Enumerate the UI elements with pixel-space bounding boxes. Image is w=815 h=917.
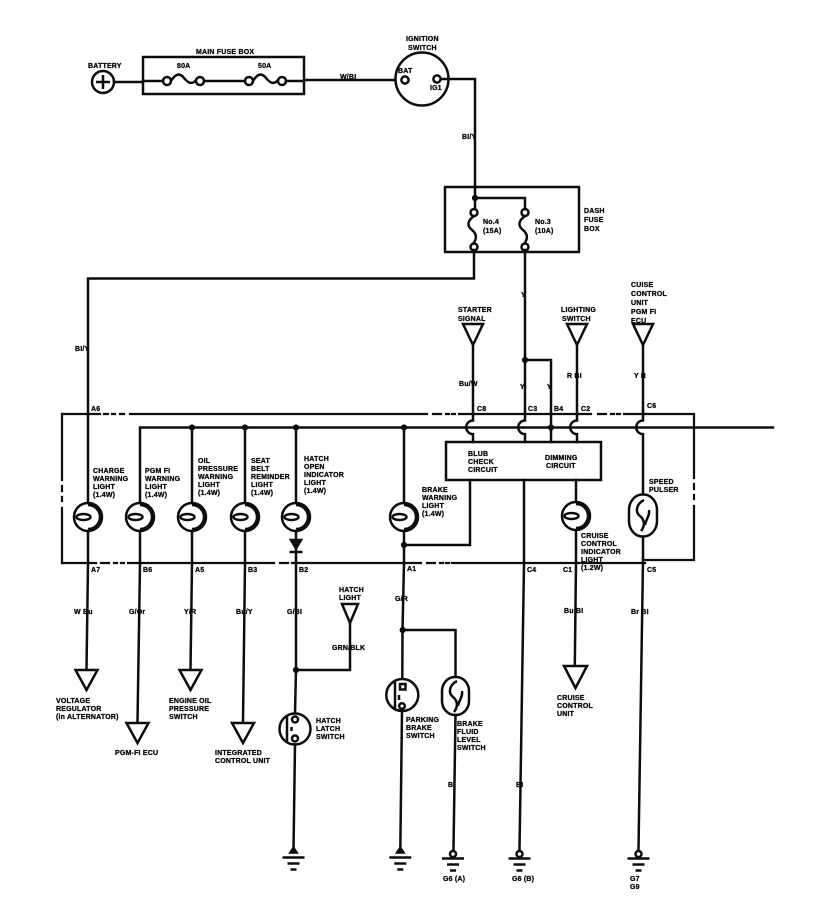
svg-text:CRUISE: CRUISE — [557, 695, 585, 702]
bus wire inside cluster — [140, 428, 773, 504]
svg-text:A1: A1 — [407, 566, 416, 573]
svg-text:80A: 80A — [177, 63, 190, 70]
junction node B4 — [548, 424, 554, 430]
svg-text:(1.4W): (1.4W) — [304, 488, 326, 495]
svg-text:CONTROL UNIT: CONTROL UNIT — [215, 758, 271, 765]
svg-text:LIGHT: LIGHT — [198, 482, 221, 489]
svg-text:DASH: DASH — [584, 208, 605, 215]
svg-text:A5: A5 — [195, 567, 204, 574]
svg-text:Y R: Y R — [634, 373, 646, 380]
wire battery to main fuse box — [114, 81, 143, 84]
svg-text:CIRCUIT: CIRCUIT — [546, 463, 576, 470]
svg-text:A7: A7 — [91, 567, 100, 574]
svg-text:BI: BI — [516, 782, 523, 789]
junction node brake — [401, 424, 407, 430]
svg-text:REGULATOR: REGULATOR — [56, 706, 102, 713]
wire C1 to cruise control unit, label Bu BI — [564, 563, 583, 665]
svg-text:C4: C4 — [527, 567, 536, 574]
svg-text:LIGHT: LIGHT — [251, 482, 274, 489]
svg-text:CUISE: CUISE — [631, 282, 654, 289]
PGM-FI ECU connector triangle — [115, 723, 158, 757]
wire B6 to PGM-FI ECU, label G/Or — [129, 563, 145, 722]
wire A7 to voltage regulator, label W Bu — [74, 563, 93, 669]
charge warning light lamp — [74, 414, 129, 563]
wire fuse No.4 to left branch, label BI/Y — [75, 250, 474, 414]
svg-text:UNIT: UNIT — [631, 300, 649, 307]
svg-text:LIGHT: LIGHT — [304, 480, 327, 487]
svg-text:CRUISE: CRUISE — [581, 533, 609, 540]
svg-text:LIGHT: LIGHT — [339, 595, 362, 602]
svg-text:FLUID: FLUID — [457, 729, 479, 736]
wire inside dash fuse box with junction — [472, 187, 525, 209]
svg-text:Y: Y — [547, 384, 552, 391]
fuse 50A — [245, 63, 286, 85]
svg-text:IG1: IG1 — [430, 85, 442, 92]
fuse No.3 (10A) — [519, 209, 553, 251]
svg-text:SWITCH: SWITCH — [457, 745, 486, 752]
svg-text:PGM-FI ECU: PGM-FI ECU — [115, 750, 158, 757]
integrated control unit connector triangle — [215, 723, 271, 765]
svg-text:IGNITION: IGNITION — [406, 36, 439, 43]
svg-text:R BI: R BI — [567, 373, 582, 380]
svg-text:MAIN FUSE BOX: MAIN FUSE BOX — [196, 49, 254, 56]
svg-text:VOLTAGE: VOLTAGE — [56, 698, 90, 705]
hatch light connector triangle — [293, 587, 365, 673]
svg-text:C2: C2 — [581, 406, 590, 413]
svg-text:BAT: BAT — [398, 68, 413, 75]
svg-text:B3: B3 — [248, 567, 257, 574]
wire through main fuse box — [143, 80, 304, 83]
instrument cluster boundary top (dash-dot) — [62, 413, 645, 415]
svg-text:INDICATOR: INDICATOR — [581, 549, 621, 556]
svg-text:REMINDER: REMINDER — [251, 474, 290, 481]
svg-text:C1: C1 — [563, 567, 572, 574]
svg-text:BI: BI — [448, 782, 455, 789]
wire IG1 to dash fuse box, label BI/Y — [441, 79, 477, 187]
instrument cluster boundary left edge — [61, 414, 63, 563]
wire B2 down, label G/BI — [287, 563, 302, 714]
svg-text:C6: C6 — [647, 403, 656, 410]
svg-text:BI/Y: BI/Y — [462, 134, 477, 141]
svg-text:WARNING: WARNING — [198, 474, 234, 481]
junction node oil pressure — [189, 424, 195, 430]
svg-text:W Bu: W Bu — [74, 609, 93, 616]
svg-text:Y: Y — [520, 384, 525, 391]
svg-text:SWITCH: SWITCH — [562, 316, 591, 323]
svg-text:LIGHT: LIGHT — [422, 503, 445, 510]
svg-text:(1.4W): (1.4W) — [251, 490, 273, 497]
svg-text:LIGHT: LIGHT — [145, 484, 168, 491]
svg-text:LATCH: LATCH — [316, 726, 340, 733]
wire C8 into bulb check circuit with hop over bus — [466, 414, 473, 442]
wire C4 to ground, label BI — [516, 563, 524, 849]
svg-text:G9: G9 — [630, 884, 640, 891]
svg-text:(1.4W): (1.4W) — [198, 490, 220, 497]
svg-text:HATCH: HATCH — [304, 456, 329, 463]
svg-text:G/BI: G/BI — [287, 609, 302, 616]
speed pulser — [629, 479, 679, 560]
svg-text:C5: C5 — [647, 567, 656, 574]
svg-text:Y: Y — [521, 292, 526, 299]
svg-text:B6: B6 — [143, 567, 152, 574]
ground G6 (B) — [509, 851, 535, 883]
dash fuse box — [445, 187, 605, 252]
svg-text:C8: C8 — [477, 406, 486, 413]
svg-text:BELT: BELT — [251, 466, 270, 473]
wire fuse No.3 down, label Y — [521, 250, 526, 360]
svg-text:Bu/Y: Bu/Y — [236, 609, 253, 616]
svg-text:GRN/BLK: GRN/BLK — [332, 645, 365, 652]
ground G6 (A) — [442, 851, 465, 883]
wire C6 to speed pulser with hop — [636, 410, 643, 496]
svg-text:CONTROL: CONTROL — [581, 541, 618, 548]
wire parking brake switch to ground — [400, 711, 402, 851]
cruise control unit connector triangle — [557, 666, 594, 718]
diode below hatch lamp — [290, 540, 303, 553]
svg-text:INDICATOR: INDICATOR — [304, 472, 344, 479]
wire B3 to integrated control unit, label Bu/Y — [236, 563, 253, 722]
junction node split to B4 — [520, 357, 552, 414]
svg-text:BRAKE: BRAKE — [422, 487, 448, 494]
svg-text:BATTERY: BATTERY — [88, 63, 122, 70]
svg-text:LIGHTING: LIGHTING — [561, 307, 596, 314]
svg-text:CONTROL: CONTROL — [557, 703, 594, 710]
svg-text:(1.4W): (1.4W) — [422, 511, 444, 518]
wire brake fluid switch to ground, label BI — [448, 715, 456, 849]
hatch latch switch — [280, 714, 345, 745]
svg-text:(10A): (10A) — [535, 228, 554, 235]
junction node seat belt — [242, 424, 248, 430]
svg-text:SWITCH: SWITCH — [408, 45, 437, 52]
svg-text:PRESSURE: PRESSURE — [169, 706, 209, 713]
svg-text:INTEGRATED: INTEGRATED — [215, 750, 262, 757]
svg-text:50A: 50A — [258, 63, 271, 70]
svg-text:SIGNAL: SIGNAL — [458, 316, 486, 323]
svg-text:BOX: BOX — [584, 226, 600, 233]
svg-text:BRAKE: BRAKE — [457, 721, 483, 728]
svg-text:WARNING: WARNING — [422, 495, 458, 502]
svg-text:OIL: OIL — [198, 458, 211, 465]
svg-text:A6: A6 — [91, 406, 100, 413]
wire B4 into box — [550, 414, 553, 442]
wire A5 to engine oil pressure switch, label Y/R — [184, 563, 196, 669]
svg-text:(15A): (15A) — [483, 228, 502, 235]
junction node hatch — [293, 424, 299, 430]
svg-text:DIMMING: DIMMING — [545, 455, 578, 462]
svg-text:HATCH: HATCH — [339, 587, 364, 594]
svg-text:PGM FI: PGM FI — [631, 309, 656, 316]
svg-text:OPEN: OPEN — [304, 464, 325, 471]
svg-text:Bu/W: Bu/W — [459, 381, 478, 388]
brake fluid level switch — [442, 677, 486, 752]
bulb check / dimming circuit box — [446, 442, 601, 480]
svg-text:No.3: No.3 — [535, 219, 551, 226]
hatch open indicator light lamp — [282, 427, 344, 563]
wire dimming circuit to C4 — [523, 480, 526, 563]
junction to brake fluid level switch — [400, 627, 456, 677]
svg-text:BI/Y: BI/Y — [75, 346, 90, 353]
PGM FI warning light lamp — [126, 468, 181, 563]
svg-text:Bu BI: Bu BI — [564, 608, 583, 615]
svg-text:B2: B2 — [299, 567, 308, 574]
wire C2 into box with hop — [570, 414, 577, 442]
svg-text:SWITCH: SWITCH — [169, 714, 198, 721]
wire bulb check circuit to brake lamp wire — [401, 480, 470, 548]
svg-text:G6 (A): G6 (A) — [443, 876, 465, 883]
svg-text:SEAT: SEAT — [251, 458, 270, 465]
svg-text:PGM FI: PGM FI — [145, 468, 170, 475]
svg-text:BLUB: BLUB — [468, 451, 488, 458]
svg-text:Y/R: Y/R — [184, 609, 196, 616]
wire C3 into box with hop — [518, 414, 525, 442]
fuse 80A — [163, 63, 204, 85]
starter signal connector — [458, 307, 492, 414]
svg-text:CIRCUIT: CIRCUIT — [468, 467, 498, 474]
svg-text:CHARGE: CHARGE — [93, 468, 125, 475]
lighting switch connector — [561, 307, 596, 414]
ignition switch — [396, 36, 449, 106]
wire C5 to ground, label Br BI — [631, 560, 649, 849]
parking brake switch — [386, 679, 439, 740]
ground hatch latch — [283, 847, 305, 870]
wire main fuse box to ignition switch, label W/BI — [304, 74, 401, 81]
oil pressure warning light lamp — [178, 427, 238, 563]
svg-text:HATCH: HATCH — [316, 718, 341, 725]
svg-text:SWITCH: SWITCH — [316, 734, 345, 741]
seat belt reminder light lamp — [231, 427, 290, 563]
cruise control unit / PGM FI ECU connector — [631, 282, 668, 410]
fuse No.4 (15A) — [468, 209, 501, 251]
ground parking brake — [389, 847, 411, 870]
voltage regulator connector triangle — [56, 670, 119, 721]
svg-text:(1.4W): (1.4W) — [145, 492, 167, 499]
wire A1 down, label G/R — [395, 563, 408, 679]
svg-text:BRAKE: BRAKE — [406, 725, 432, 732]
svg-text:(in ALTERNATOR): (in ALTERNATOR) — [56, 714, 119, 721]
engine oil pressure switch connector triangle — [169, 670, 212, 721]
svg-text:G/Or: G/Or — [129, 609, 145, 616]
battery — [88, 63, 122, 93]
main fuse box — [143, 49, 304, 94]
svg-text:PRESSURE: PRESSURE — [198, 466, 238, 473]
svg-text:PARKING: PARKING — [406, 717, 440, 724]
svg-text:G7: G7 — [630, 876, 640, 883]
svg-text:WARNING: WARNING — [145, 476, 181, 483]
svg-text:G6 (B): G6 (B) — [512, 876, 534, 883]
svg-text:CONTROL: CONTROL — [631, 291, 668, 298]
svg-text:Br BI: Br BI — [631, 609, 649, 616]
instrument cluster boundary bottom (dash-dot) — [62, 562, 645, 564]
svg-text:ENGINE OIL: ENGINE OIL — [169, 698, 212, 705]
ground G7 G9 — [628, 851, 650, 891]
svg-text:W/BI: W/BI — [340, 74, 356, 81]
svg-text:CHECK: CHECK — [468, 459, 494, 466]
cluster boundary right loop around speed pulser — [645, 414, 694, 560]
svg-text:STARTER: STARTER — [458, 307, 492, 314]
svg-text:UNIT: UNIT — [557, 711, 575, 718]
svg-text:LIGHT: LIGHT — [93, 484, 116, 491]
svg-text:PULSER: PULSER — [649, 487, 679, 494]
svg-text:(1.2W): (1.2W) — [581, 565, 603, 572]
svg-text:SWITCH: SWITCH — [406, 733, 435, 740]
svg-text:SPEED: SPEED — [649, 479, 674, 486]
svg-text:FUSE: FUSE — [584, 217, 604, 224]
svg-text:No.4: No.4 — [483, 219, 499, 226]
svg-text:B4: B4 — [554, 406, 563, 413]
brake warning light lamp — [390, 427, 458, 563]
wire hatch latch switch to ground — [294, 745, 296, 852]
svg-text:(1.4W): (1.4W) — [93, 492, 115, 499]
svg-text:C3: C3 — [528, 406, 537, 413]
svg-text:WARNING: WARNING — [93, 476, 129, 483]
cruise control indicator light lamp — [562, 480, 621, 572]
svg-text:LIGHT: LIGHT — [581, 557, 604, 564]
svg-text:LEVEL: LEVEL — [457, 737, 481, 744]
svg-text:G/R: G/R — [395, 596, 408, 603]
